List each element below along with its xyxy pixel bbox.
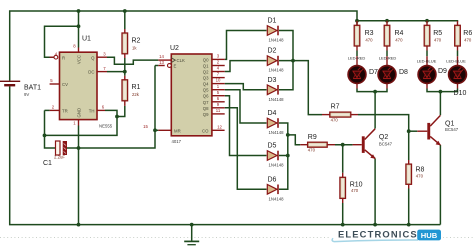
svg-text:D9: D9: [438, 68, 447, 75]
svg-text:NE555: NE555: [99, 124, 113, 129]
svg-text:Q3: Q3: [203, 76, 209, 81]
svg-text:LED-RED: LED-RED: [379, 55, 397, 60]
svg-text:1N4148: 1N4148: [269, 196, 285, 201]
svg-text:LED-BLUE: LED-BLUE: [446, 59, 466, 64]
svg-text:HUB: HUB: [421, 231, 438, 240]
svg-text:9V: 9V: [24, 92, 29, 97]
svg-text:470: 470: [434, 38, 442, 43]
svg-text:13: 13: [159, 60, 164, 65]
svg-text:12: 12: [217, 124, 222, 129]
svg-text:470: 470: [416, 174, 424, 179]
svg-text:LED-BLUE: LED-BLUE: [417, 59, 437, 64]
svg-text:Q2: Q2: [203, 70, 209, 75]
svg-text:DC: DC: [88, 70, 94, 75]
svg-text:GND: GND: [76, 108, 81, 118]
svg-text:Q0: Q0: [203, 57, 209, 62]
svg-text:Q4: Q4: [203, 82, 209, 87]
svg-text:1N4148: 1N4148: [269, 163, 285, 168]
svg-text:D6: D6: [268, 176, 277, 183]
svg-text:R9: R9: [308, 134, 317, 141]
svg-text:R2: R2: [132, 38, 141, 45]
svg-text:R8: R8: [416, 167, 425, 174]
svg-text:470: 470: [464, 38, 472, 43]
svg-text:R5: R5: [433, 30, 442, 37]
svg-text:E: E: [174, 64, 177, 69]
svg-text:CO: CO: [202, 128, 209, 133]
svg-text:R: R: [62, 55, 65, 60]
svg-text:R3: R3: [365, 30, 374, 37]
svg-text:11: 11: [216, 108, 221, 113]
svg-text:470: 470: [351, 188, 359, 193]
svg-text:BAT1: BAT1: [24, 85, 41, 92]
svg-text:D2: D2: [268, 48, 277, 55]
svg-text:D8: D8: [399, 69, 408, 76]
svg-text:4017: 4017: [172, 139, 182, 144]
svg-text:D3: D3: [268, 77, 277, 84]
svg-text:U2: U2: [170, 45, 179, 52]
svg-text:Q6: Q6: [203, 94, 209, 99]
svg-text:TH: TH: [89, 109, 95, 114]
svg-text:VCC: VCC: [76, 55, 81, 64]
svg-text:D4: D4: [268, 110, 277, 117]
svg-text:R1: R1: [132, 84, 141, 91]
svg-text:MR: MR: [174, 128, 181, 133]
svg-text:14: 14: [159, 54, 164, 59]
svg-text:470: 470: [365, 38, 373, 43]
svg-text:U1: U1: [82, 36, 91, 43]
svg-text:R6: R6: [463, 30, 472, 37]
svg-text:CV: CV: [62, 82, 68, 87]
svg-text:22k: 22k: [132, 92, 140, 97]
svg-text:Q1: Q1: [203, 64, 209, 69]
svg-text:R4: R4: [395, 30, 404, 37]
svg-text:15: 15: [143, 124, 148, 129]
svg-text:2.2uF: 2.2uF: [54, 155, 65, 160]
svg-text:D1: D1: [268, 18, 277, 25]
svg-text:D7: D7: [369, 69, 378, 76]
svg-text:470: 470: [331, 117, 339, 122]
svg-text:BC547: BC547: [445, 127, 459, 132]
svg-text:Q9: Q9: [203, 112, 209, 117]
svg-text:D5: D5: [268, 143, 277, 150]
svg-text:C1: C1: [43, 160, 52, 167]
svg-text:470: 470: [395, 38, 403, 43]
svg-text:BC547: BC547: [379, 142, 393, 147]
svg-text:Q8: Q8: [203, 106, 209, 111]
svg-text:TR: TR: [62, 109, 68, 114]
svg-text:1N4148: 1N4148: [269, 97, 285, 102]
svg-text:1N4148: 1N4148: [269, 38, 285, 43]
svg-text:1N4148: 1N4148: [269, 68, 285, 73]
svg-text:Q2: Q2: [379, 134, 388, 141]
svg-text:1N4148: 1N4148: [269, 130, 285, 135]
svg-text:470: 470: [308, 148, 316, 153]
svg-text:R7: R7: [331, 104, 340, 111]
svg-text:10: 10: [216, 78, 221, 83]
svg-text:ELECTRONICS: ELECTRONICS: [338, 229, 418, 240]
svg-text:Q7: Q7: [203, 100, 209, 105]
svg-text:LED-RED: LED-RED: [348, 55, 366, 60]
svg-text:CLK: CLK: [177, 58, 185, 63]
svg-text:D10: D10: [454, 90, 467, 97]
svg-text:Q5: Q5: [203, 88, 209, 93]
